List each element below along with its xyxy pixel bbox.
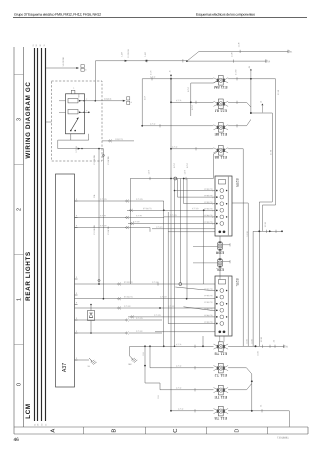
svg-text:5: 5 <box>86 110 87 112</box>
open junction x180 y284 <box>179 283 182 286</box>
svg-text:1: 1 <box>16 298 22 301</box>
svg-text:E11 TE: E11 TE <box>214 395 227 400</box>
svg-text:2: 2 <box>86 99 87 101</box>
junction x163.75 y346 <box>163 345 165 347</box>
scale tick y254 <box>14 254 24 256</box>
lamp E39L <box>218 260 223 266</box>
connector symbol x81 y68 <box>81 65 84 68</box>
feeder y231.8 <box>168 231 215 233</box>
scale tick y74 <box>14 74 24 76</box>
svg-text:JB: JB <box>249 65 251 68</box>
wire A37 pin333 <box>75 332 128 334</box>
junction x251 y381 <box>251 380 253 382</box>
svg-text:1.5 R: 1.5 R <box>232 52 234 57</box>
riser x171 upper <box>170 79 172 103</box>
svg-text:E11 8M: E11 8M <box>214 85 228 90</box>
svg-text:E27R: E27R <box>235 179 239 188</box>
svg-text:0.75 SB: 0.75 SB <box>168 306 175 308</box>
svg-text:6: 6 <box>212 204 213 206</box>
trunk corner to lamp4 <box>212 154 214 179</box>
junction x171 y78.8 <box>170 78 172 80</box>
junction x255 y346 <box>255 345 257 347</box>
lamp E11-T8 <box>218 342 223 352</box>
svg-text:1.5 W-SB: 1.5 W-SB <box>108 226 110 235</box>
lamp E11-88 <box>218 146 223 156</box>
wire A37 pin360 <box>75 359 90 361</box>
feeder y331.8 <box>155 331 215 333</box>
riser x203 from E27L <box>202 336 204 346</box>
svg-text:D: D <box>235 429 241 433</box>
bottom bus ticks <box>262 345 264 348</box>
junction x183.75 y178.5 <box>183 178 185 180</box>
svg-text:0.75 R: 0.75 R <box>187 162 189 168</box>
bottom strip top line <box>14 426 308 428</box>
bottom strip bottom line <box>14 433 308 435</box>
connector E27L <box>215 276 232 336</box>
feeder y216.9 <box>164 216 215 218</box>
trunk y178.5 <box>130 178 213 180</box>
lamp feed ticks <box>151 77 153 80</box>
junction x186 y298.75 <box>186 298 188 300</box>
svg-text:WIRING DIAGRAM GC: WIRING DIAGRAM GC <box>25 81 32 158</box>
riser x142 <box>141 79 143 126</box>
wire lamp8 feed <box>171 410 214 412</box>
svg-text:B: B <box>112 429 118 433</box>
A37 pin stub y320 <box>75 319 78 321</box>
A37 pin stub y304.5 <box>75 304 78 306</box>
wire lamp5 feed <box>130 345 214 347</box>
svg-text:BT-B(0.75): BT-B(0.75) <box>204 308 213 310</box>
fan L row1 <box>175 287 211 291</box>
wire y51.4 tick <box>239 50 241 53</box>
svg-text:B: B <box>85 70 87 72</box>
svg-text:15: 15 <box>268 61 271 63</box>
svg-text:Grupo 37 Esquema eléctrico FM9: Grupo 37 Esquema eléctrico FM9, FM12, FH… <box>14 13 101 17</box>
svg-text:C: C <box>173 429 179 433</box>
svg-text:0.75 GN: 0.75 GN <box>170 215 177 217</box>
jog outer <box>263 204 276 206</box>
junction x171 y410 <box>170 410 172 412</box>
wire S73 out 1 <box>85 100 125 102</box>
connector E27R <box>215 176 232 236</box>
svg-text:0.75 R: 0.75 R <box>176 344 182 346</box>
svg-text:46: 46 <box>13 437 19 443</box>
terminal end x266 <box>265 59 267 62</box>
svg-text:31: 31 <box>33 45 35 47</box>
svg-text:3: 3 <box>16 118 22 121</box>
control unit A37 box <box>56 174 75 387</box>
svg-text:1.5 GN-SB: 1.5 GN-SB <box>94 225 96 235</box>
svg-text:1.5 SB: 1.5 SB <box>271 149 273 155</box>
bundle wire x168.2 <box>167 212 169 324</box>
wire x145 to x160 <box>145 382 160 384</box>
collector row y231.3 <box>253 230 282 232</box>
svg-text:31: 31 <box>87 366 90 368</box>
svg-text:8: 8 <box>76 215 77 217</box>
bottom strip divider 3 <box>206 427 208 434</box>
svg-text:E39R: E39R <box>215 251 224 255</box>
open junction x175 y178.5 <box>174 177 177 180</box>
svg-text:8: 8 <box>76 293 77 295</box>
svg-text:BT-B(0.75): BT-B(0.75) <box>204 315 213 317</box>
svg-text:31: 31 <box>273 340 275 342</box>
descender x103.4 <box>102 149 104 299</box>
switch arrow 2 <box>79 111 84 113</box>
lamp E39R <box>218 243 223 249</box>
wire y61.1 tick <box>232 60 234 63</box>
svg-text:1.5 OR-SB: 1.5 OR-SB <box>128 49 130 58</box>
svg-text:1.5 R: 1.5 R <box>145 51 147 56</box>
wire lamp1 lower feed <box>191 82 214 84</box>
bottom strip divider 2 <box>145 427 147 434</box>
wire lamp3 return <box>228 125 246 127</box>
svg-text:1.5 GN-SB: 1.5 GN-SB <box>94 155 96 165</box>
svg-text:1.5 R: 1.5 R <box>122 51 124 56</box>
switch unit top pin <box>71 90 75 94</box>
wire lamp8 return <box>228 410 252 412</box>
junction x250.9 y78.8 <box>250 78 252 80</box>
svg-text:1.5 R: 1.5 R <box>150 70 152 75</box>
riser x160 <box>159 383 161 390</box>
feeder y323.5 <box>168 323 215 325</box>
trunk jog up <box>187 51 199 61</box>
junction x145 y346 <box>144 345 146 347</box>
wire lamp4 return <box>228 148 243 150</box>
splice label y69 <box>250 69 252 71</box>
feeder y210.3 <box>127 209 215 211</box>
scale tick y164 <box>14 164 24 166</box>
svg-text:6: 6 <box>212 197 213 199</box>
diode V1 symbol <box>89 313 93 317</box>
A37 pin stub y217.5 <box>75 217 78 219</box>
wire A37 pin201 <box>75 200 164 202</box>
svg-text:0.75 SB: 0.75 SB <box>76 145 78 152</box>
svg-text:8: 8 <box>76 199 77 201</box>
A37 pin stub y295 <box>75 294 78 296</box>
svg-text:0.75 GN: 0.75 GN <box>156 227 163 229</box>
wire y410 right <box>252 410 289 412</box>
svg-text:21B(0.8): 21B(0.8) <box>104 99 112 101</box>
svg-text:E11 88: E11 88 <box>214 155 227 160</box>
wire lamp6 return <box>228 367 246 369</box>
svg-text:E11 TJ: E11 TJ <box>215 373 227 378</box>
terminal end bottom bus <box>283 345 285 348</box>
frame left border <box>13 47 15 434</box>
wire y141 exit <box>102 140 134 142</box>
svg-text:0.75 R: 0.75 R <box>150 77 156 79</box>
svg-text:Esquemas eléctricos de los com: Esquemas eléctricos de los componentes <box>196 13 255 17</box>
wire A37 pin227 <box>75 227 151 229</box>
svg-text:E11 T8: E11 T8 <box>214 352 227 357</box>
svg-text:REAR LIGHTS: REAR LIGHTS <box>25 251 32 301</box>
svg-text:BT-B(0.75): BT-B(0.75) <box>143 208 152 210</box>
svg-text:A: A <box>51 429 57 433</box>
svg-text:1.5 R: 1.5 R <box>238 42 240 47</box>
drop x289 <box>288 411 290 427</box>
svg-text:0.75 R: 0.75 R <box>172 147 178 149</box>
svg-text:6: 6 <box>212 210 213 212</box>
svg-text:0.75 SB: 0.75 SB <box>100 225 107 227</box>
svg-text:0.75 SB: 0.75 SB <box>192 208 199 210</box>
frame scale divider <box>23 47 25 427</box>
riser x251 bottom <box>251 374 253 411</box>
svg-text:58: 58 <box>36 45 38 47</box>
switch arrow 1 <box>79 100 84 102</box>
terminal end x288 <box>287 50 289 53</box>
bus wire 4 <box>45 48 47 421</box>
bundle wire x177.5 <box>177 179 179 198</box>
trunk arrow x126 <box>125 60 128 62</box>
svg-text:8: 8 <box>76 331 77 333</box>
wire E27R to E39R <box>219 236 221 241</box>
fan L row2 <box>184 307 212 311</box>
feeder y298.75 <box>75 298 216 300</box>
ground 31 A37 <box>89 358 92 361</box>
wire y61.1 cont <box>187 60 266 62</box>
junction x186.9 y61 <box>186 60 188 62</box>
svg-text:31F: 31F <box>128 364 132 366</box>
wire pin217 corner <box>163 216 165 219</box>
bundle wire x174.5 <box>174 180 176 346</box>
svg-text:BT-B(0.75): BT-B(0.75) <box>204 302 213 304</box>
junction x251 y410 <box>251 410 253 412</box>
fan R row3 <box>184 203 215 205</box>
svg-text:E11 T8: E11 T8 <box>214 416 227 421</box>
wire lamp1 feed <box>142 78 213 80</box>
svg-text:0.75 SB: 0.75 SB <box>124 306 131 308</box>
svg-text:0.75 R: 0.75 R <box>192 104 194 110</box>
svg-text:8: 8 <box>76 318 77 320</box>
svg-text:21A: 21A <box>93 194 96 198</box>
svg-text:21A(0.75): 21A(0.75) <box>115 138 123 141</box>
svg-text:0.75 R: 0.75 R <box>176 366 182 368</box>
wire lamp7 feed <box>160 389 214 391</box>
lamp E11-T# <box>218 406 223 416</box>
wire lamp3 feed <box>142 125 213 127</box>
wire lamp7 return <box>228 389 246 391</box>
svg-text:1.5 SB: 1.5 SB <box>265 221 267 227</box>
wire pin333 cont <box>129 332 162 334</box>
wire bus stub y122 <box>46 121 52 123</box>
E39 stubs right <box>223 244 231 246</box>
wire pin201 corner <box>163 201 165 210</box>
svg-text:8: 8 <box>76 358 77 360</box>
A37 pin stub y333 <box>75 332 78 334</box>
junction x160 y308 <box>159 307 161 309</box>
lamp E11-TJ <box>218 363 223 373</box>
wire y410 tick <box>261 409 263 412</box>
svg-text:0: 0 <box>16 383 22 386</box>
svg-text:0.75 GN: 0.75 GN <box>136 318 143 320</box>
riser x275.5 <box>275 79 277 205</box>
descender x203.7 <box>203 210 205 284</box>
descent x248.2 <box>247 203 249 346</box>
wire trunk y60.8 <box>96 60 187 62</box>
riser x145 <box>144 346 146 383</box>
svg-text:0.75 R: 0.75 R <box>174 162 176 168</box>
lamp E11-8J <box>218 99 223 109</box>
descender x99 <box>98 149 100 284</box>
svg-text:BT-B(0.75): BT-B(0.75) <box>124 282 133 284</box>
junction x250.9 y113 <box>250 112 252 114</box>
switch lever <box>71 118 78 130</box>
svg-text:0.75 SB: 0.75 SB <box>133 221 140 223</box>
svg-text:1.5 R: 1.5 R <box>184 169 186 174</box>
svg-text:0.75 SB: 0.75 SB <box>136 331 143 333</box>
svg-text:1.5 SB: 1.5 SB <box>258 351 260 356</box>
dashed unit box <box>52 81 103 161</box>
junction x171 y178.5 <box>170 178 172 180</box>
A37 pin stub y279 <box>75 278 78 280</box>
wire y51.4 <box>199 50 288 52</box>
wire lamp1 return <box>228 78 275 80</box>
svg-text:31: 31 <box>260 405 262 407</box>
svg-text:BT-B(0.75): BT-B(0.75) <box>204 322 213 324</box>
E27L bottom pins to lamp5 <box>219 336 221 342</box>
wire S73 bottom loop <box>58 139 89 141</box>
svg-text:JC: JC <box>261 100 263 103</box>
svg-text:15: 15 <box>44 45 46 47</box>
svg-text:6: 6 <box>212 190 213 192</box>
svg-text:6: 6 <box>212 217 213 219</box>
svg-text:31: 31 <box>286 346 289 348</box>
bus wire 1 <box>34 48 36 421</box>
svg-text:1.5 OR-SB: 1.5 OR-SB <box>63 57 65 67</box>
lamp E11-8M <box>218 76 223 86</box>
svg-text:A37: A37 <box>62 363 68 372</box>
wire y113 to right <box>251 112 272 114</box>
svg-text:8: 8 <box>76 277 77 279</box>
feeder y308 <box>75 307 216 309</box>
riser x129 to ground <box>129 346 131 356</box>
ground 31 bottom mid <box>130 356 133 359</box>
svg-text:0.75 R: 0.75 R <box>188 86 190 92</box>
svg-text:0.75 R: 0.75 R <box>178 409 184 411</box>
svg-text:6: 6 <box>73 88 74 90</box>
svg-text:1.5 SB: 1.5 SB <box>247 339 249 344</box>
svg-text:1.5 SB: 1.5 SB <box>235 69 237 75</box>
feeder y223.5 <box>128 223 215 225</box>
junction x171 y102 <box>170 101 172 103</box>
svg-text:0.75 R: 0.75 R <box>150 124 156 126</box>
svg-text:0.75 W: 0.75 W <box>136 215 142 217</box>
wire A37 pin217 <box>75 217 164 219</box>
svg-text:E11 8J: E11 8J <box>215 109 227 114</box>
bottom bus y346 <box>228 345 284 347</box>
diode V1 leads <box>90 305 92 311</box>
svg-text:0.75 GN: 0.75 GN <box>100 199 107 201</box>
A37 pin stub y227.5 <box>75 227 78 229</box>
junction x99 y284 <box>98 283 100 285</box>
junction x145 y365 <box>144 365 146 367</box>
svg-text:6: 6 <box>212 223 213 225</box>
A37 pin stub y201 <box>75 200 78 202</box>
bottom strip right edge <box>307 427 309 434</box>
svg-text:1.5 SB: 1.5 SB <box>278 89 280 95</box>
bus wire 2 <box>37 48 39 421</box>
bundle wire x171 <box>170 79 172 411</box>
splice marker y107 <box>261 104 263 106</box>
svg-text:E27L: E27L <box>235 279 239 287</box>
wire lamp2 return <box>228 101 246 103</box>
bottom row ticks <box>194 345 196 348</box>
E27R right stub <box>232 202 248 204</box>
junction x203 y346 <box>202 345 204 347</box>
svg-text:1.5 R: 1.5 R <box>148 169 150 174</box>
trunk tick x147 <box>146 59 148 62</box>
svg-text:1.5 R: 1.5 R <box>145 95 147 100</box>
feeder y284 <box>75 283 216 285</box>
svg-text:JB: JB <box>169 71 171 73</box>
descent x243.2 <box>242 149 244 346</box>
junction x171 y148 <box>170 148 172 150</box>
wire from bus y68 <box>46 67 78 69</box>
svg-text:31: 31 <box>34 424 36 426</box>
wire y148 horizontal <box>58 148 104 150</box>
lamp E11-8E <box>218 123 223 133</box>
junction x142 y125.8 <box>141 125 143 127</box>
svg-text:0.75 R: 0.75 R <box>176 100 182 102</box>
svg-text:8: 8 <box>76 225 77 227</box>
svg-text:BT-B(0.75): BT-B(0.75) <box>204 295 213 297</box>
switch unit box <box>66 94 85 134</box>
lamp return ticks <box>236 77 238 80</box>
wire lamp2 feed <box>171 101 214 103</box>
header rule <box>13 17 307 19</box>
wire lamp6 feed <box>150 367 214 369</box>
riser x150 lamp6 <box>149 346 151 368</box>
bottom strip divider 1 <box>83 427 85 434</box>
fan R row2 <box>178 196 216 198</box>
fan R row1 <box>175 190 216 192</box>
wire E39R-E39L <box>219 251 221 259</box>
wire S73 bottom 1 <box>70 134 72 140</box>
riser x272.3 <box>271 113 273 202</box>
junction x103.4 y298.75 <box>103 298 105 300</box>
diode V1 box <box>88 311 95 321</box>
svg-text:0.75 GN: 0.75 GN <box>154 315 161 317</box>
wire lamp4 feed <box>171 148 214 150</box>
feeder y316.9 <box>128 316 215 318</box>
bundle wire x180.75 <box>180 179 182 283</box>
wire S73 out 2 <box>85 111 89 113</box>
wire pin320 cont <box>129 319 162 321</box>
svg-text:BT-B(0.75): BT-B(0.75) <box>204 289 213 291</box>
riser x130 long <box>129 179 131 285</box>
svg-text:1.5 W-SB: 1.5 W-SB <box>108 156 110 165</box>
svg-text:0.75 GR: 0.75 GR <box>160 297 167 299</box>
svg-text:1.5 SB: 1.5 SB <box>261 336 263 342</box>
jog inner <box>259 201 272 203</box>
wire A37 pin320 <box>75 319 128 321</box>
svg-text:LCM: LCM <box>25 403 32 419</box>
lamp E11-TE <box>218 385 223 395</box>
wire pin227 corner <box>149 228 151 232</box>
descender x163.75 <box>163 210 165 346</box>
connector stack x128 y101 <box>127 97 130 100</box>
A37 pin stub y360 <box>75 359 78 361</box>
svg-text:BT-B(0.75): BT-B(0.75) <box>124 297 133 299</box>
wire E39L down <box>219 268 221 280</box>
svg-text:1.5 SB: 1.5 SB <box>252 339 254 344</box>
svg-text:0.75 GN: 0.75 GN <box>136 199 143 201</box>
svg-text:31: 31 <box>290 51 293 53</box>
svg-text:A: A <box>131 101 133 104</box>
bottom strip divider 4 <box>267 427 269 434</box>
descent x259.3 <box>258 231 260 346</box>
svg-text:0.75 R: 0.75 R <box>176 388 182 390</box>
bundle wire x183.75 <box>183 179 185 204</box>
